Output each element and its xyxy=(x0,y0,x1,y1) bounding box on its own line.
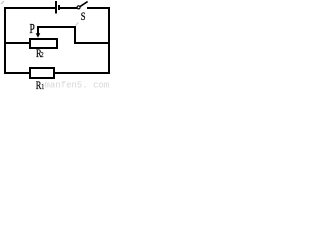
wire wiper feed xyxy=(37,26,76,28)
battery long plate xyxy=(55,1,57,14)
rheostat wiper arrowhead xyxy=(36,33,41,38)
watermark fragment top-left xyxy=(1,1,4,4)
wire right edge xyxy=(108,7,110,74)
rheostat P body (resistor R2 box) xyxy=(29,38,58,49)
svg-text:P: P xyxy=(30,23,35,37)
wire left edge xyxy=(4,7,6,74)
svg-text:R: R xyxy=(36,80,42,91)
wire bottom-right segment xyxy=(54,72,110,74)
svg-text:1: 1 xyxy=(41,83,44,91)
resistor R1 box xyxy=(29,67,55,79)
wire bottom-left segment xyxy=(4,72,29,74)
wire middle-left branch xyxy=(4,42,29,44)
wire battery to switch xyxy=(60,7,77,9)
label R1 xyxy=(36,80,45,93)
wire step vertical xyxy=(74,26,76,44)
svg-text:manfen5. com: manfen5. com xyxy=(45,81,110,91)
watermark fragment near step xyxy=(76,23,79,26)
rheostat wiper arrow shaft xyxy=(37,27,39,34)
label R2 xyxy=(36,48,44,61)
battery short plate xyxy=(58,5,60,10)
wire switch to top-right corner xyxy=(87,7,110,9)
switch S pivot circle xyxy=(77,6,80,9)
svg-text:S: S xyxy=(81,11,86,24)
wire top-left segment xyxy=(4,7,55,9)
wire middle-right branch xyxy=(74,42,110,44)
svg-text:2: 2 xyxy=(41,51,45,59)
switch S blade xyxy=(80,2,87,7)
